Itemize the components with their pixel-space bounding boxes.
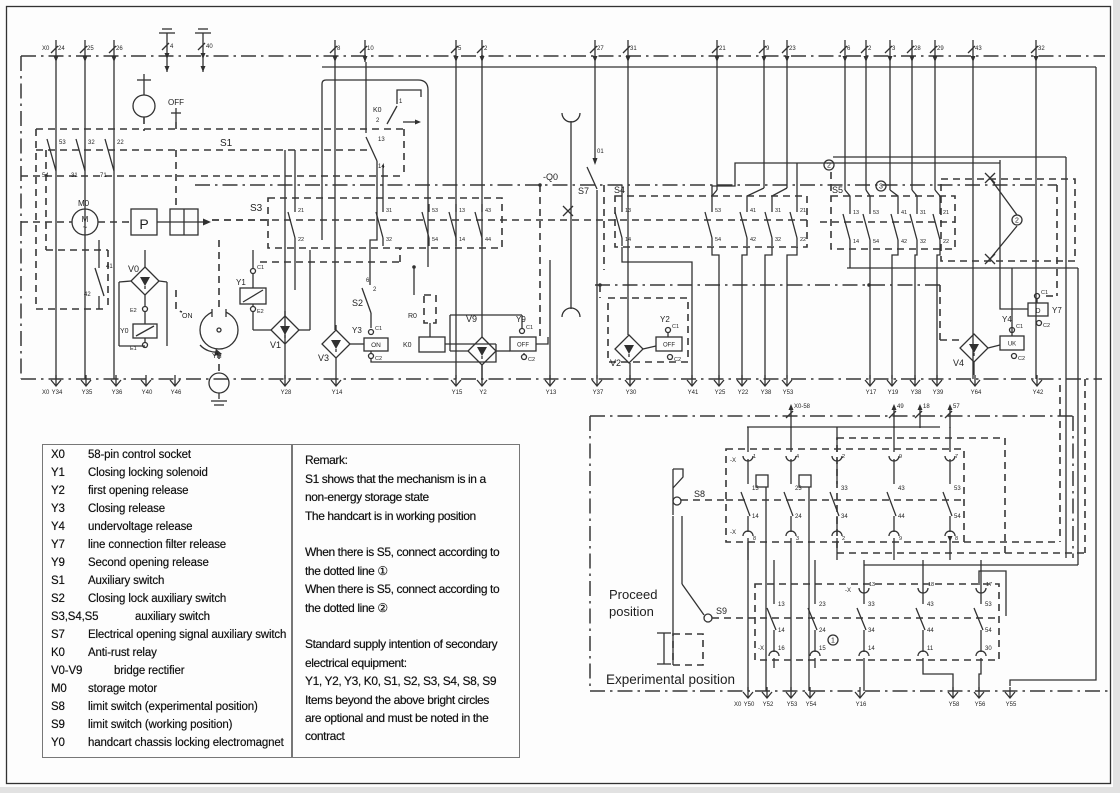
svg-text:E2: E2 [130,308,137,314]
svg-text:3: 3 [796,536,799,542]
svg-text:Y13: Y13 [546,390,557,396]
svg-text:OFF: OFF [168,98,184,107]
svg-text:16: 16 [778,646,785,652]
svg-text:Y39: Y39 [933,390,944,396]
svg-text:53: 53 [59,140,66,146]
svg-text:41: 41 [106,264,113,270]
svg-text:29: 29 [937,46,944,52]
svg-text:14: 14 [625,237,631,243]
svg-text:Y14: Y14 [332,390,343,396]
svg-text:13: 13 [459,208,465,214]
svg-text:54: 54 [715,237,721,243]
svg-text:Experimental position: Experimental position [606,672,735,687]
svg-text:34: 34 [841,514,848,520]
svg-text:7: 7 [955,454,958,460]
svg-text:ON: ON [371,342,381,349]
svg-text:Y15: Y15 [452,390,463,396]
svg-text:13: 13 [378,137,385,143]
svg-text:-X: -X [730,530,736,536]
svg-text:14: 14 [378,164,385,170]
svg-text:D: D [1035,308,1040,315]
svg-text:ON: ON [182,313,193,320]
svg-text:43: 43 [975,46,982,52]
svg-text:C1: C1 [526,325,533,331]
svg-text:-X: -X [730,458,736,464]
svg-text:21: 21 [298,208,304,214]
svg-text:32: 32 [88,140,95,146]
svg-text:-X: -X [845,588,851,594]
svg-text:23: 23 [819,602,826,608]
svg-text:54: 54 [954,514,961,520]
svg-text:43: 43 [898,486,905,492]
svg-text:1: 1 [831,638,835,645]
svg-text:53: 53 [954,486,961,492]
svg-text:31: 31 [775,208,781,214]
svg-text:S2: S2 [352,298,363,308]
svg-text:YH: YH [212,353,222,360]
svg-text:13: 13 [778,602,785,608]
svg-text:24: 24 [58,46,65,52]
svg-text:33: 33 [841,486,848,492]
svg-text:43: 43 [927,602,934,608]
svg-text:Y41: Y41 [688,390,699,396]
svg-text:S4: S4 [614,185,625,195]
svg-text:Y16: Y16 [856,702,867,708]
svg-text:23: 23 [789,46,796,52]
svg-text:21: 21 [719,46,726,52]
svg-text:Y28: Y28 [281,390,292,396]
svg-text:V3: V3 [318,353,329,363]
svg-text:Y55: Y55 [1006,702,1017,708]
svg-text:S3: S3 [250,203,263,214]
svg-text:31: 31 [386,208,392,214]
svg-text:S9: S9 [716,606,727,616]
svg-text:32: 32 [920,239,926,245]
svg-text:42: 42 [750,237,756,243]
svg-text:13: 13 [625,208,631,214]
svg-text:32: 32 [1038,46,1045,52]
svg-text:Y22: Y22 [738,390,749,396]
svg-text:Y42: Y42 [1033,390,1044,396]
svg-text:54: 54 [42,173,49,179]
svg-text:S1: S1 [220,138,233,149]
svg-text:22: 22 [117,140,124,146]
svg-text:S7: S7 [578,186,589,196]
svg-text:Y4: Y4 [1002,315,1012,324]
svg-text:54: 54 [432,237,438,243]
svg-text:44: 44 [927,628,934,634]
svg-text:Y58: Y58 [949,702,960,708]
svg-text:2: 2 [827,163,831,170]
svg-text:11: 11 [927,646,934,652]
svg-text:13: 13 [869,582,875,588]
svg-text:42: 42 [84,292,91,298]
svg-text:26: 26 [116,46,123,52]
svg-text:Y35: Y35 [82,390,93,396]
svg-text:44: 44 [485,237,491,243]
svg-text:K0: K0 [373,107,382,114]
svg-text:X0: X0 [42,46,50,52]
svg-text:01: 01 [597,149,604,155]
svg-text:C2: C2 [1043,323,1050,329]
svg-text:-Q0: -Q0 [543,172,558,182]
svg-text:R0: R0 [408,313,417,320]
svg-text:8: 8 [753,536,756,542]
svg-text:42: 42 [901,239,907,245]
svg-text:14: 14 [868,646,875,652]
svg-text:Y64: Y64 [971,390,982,396]
svg-text:X0: X0 [734,702,742,708]
svg-text:31: 31 [920,210,926,216]
svg-text:1: 1 [753,454,756,460]
svg-text:27: 27 [597,46,604,52]
svg-text:25: 25 [87,46,94,52]
svg-text:22: 22 [800,237,806,243]
svg-text:41: 41 [750,208,756,214]
svg-text:14: 14 [853,239,859,245]
svg-text:UK: UK [1008,342,1016,348]
svg-text:22: 22 [943,239,949,245]
svg-text:22: 22 [298,237,304,243]
svg-text:V4: V4 [953,358,964,368]
svg-text:Y38: Y38 [761,390,772,396]
svg-text:49: 49 [897,404,904,410]
svg-text:V2: V2 [610,358,621,368]
svg-text:OFF: OFF [517,343,529,349]
svg-text:C1: C1 [375,326,382,332]
svg-text:8: 8 [955,536,958,542]
svg-text:~: ~ [83,223,88,232]
svg-text:position: position [609,604,654,619]
svg-text:Y2: Y2 [479,390,487,396]
svg-text:Y37: Y37 [593,390,604,396]
svg-text:Proceed: Proceed [609,587,657,602]
svg-text:14: 14 [778,628,785,634]
svg-text:Y36: Y36 [112,390,123,396]
svg-text:32: 32 [386,237,392,243]
svg-text:53: 53 [715,208,721,214]
svg-text:Y17: Y17 [866,390,877,396]
svg-text:31: 31 [630,46,637,52]
svg-text:32: 32 [775,237,781,243]
svg-text:Y7: Y7 [1052,306,1062,315]
svg-text:C2: C2 [528,357,535,363]
svg-text:71: 71 [100,173,107,179]
svg-text:X0: X0 [42,390,50,396]
svg-text:S8: S8 [694,489,705,499]
svg-text:10: 10 [367,46,374,52]
svg-text:2: 2 [1015,218,1019,225]
svg-text:Y46: Y46 [171,390,182,396]
svg-text:14: 14 [752,514,759,520]
svg-text:-X: -X [758,646,764,652]
svg-text:53: 53 [873,210,879,216]
svg-text:31: 31 [71,173,78,179]
svg-text:V0: V0 [128,264,139,274]
svg-text:OFF: OFF [663,343,675,349]
svg-text:21: 21 [800,208,806,214]
svg-text:9: 9 [899,536,902,542]
svg-text:44: 44 [898,514,905,520]
svg-text:33: 33 [868,602,875,608]
svg-text:34: 34 [868,628,875,634]
svg-text:40: 40 [206,44,213,50]
svg-text:Y53: Y53 [787,702,798,708]
svg-text:2: 2 [842,536,845,542]
svg-text:14: 14 [459,237,465,243]
svg-text:9: 9 [899,454,902,460]
svg-text:E2: E2 [257,309,264,315]
svg-text:C1: C1 [672,324,679,330]
svg-text:Y9: Y9 [516,315,526,324]
svg-text:2: 2 [842,454,845,460]
svg-text:4: 4 [796,454,799,460]
svg-text:28: 28 [914,46,921,52]
svg-text:P: P [139,216,148,232]
svg-text:Y0: Y0 [120,328,129,335]
svg-text:C1: C1 [1041,290,1048,296]
svg-text:17: 17 [986,582,992,588]
svg-text:C1: C1 [257,265,264,271]
svg-text:Y1: Y1 [236,278,246,287]
svg-text:Y25: Y25 [715,390,726,396]
svg-text:Y2: Y2 [660,315,670,324]
svg-text:24: 24 [819,628,826,634]
svg-text:57: 57 [953,404,960,410]
svg-text:21: 21 [943,210,949,216]
svg-text:C1: C1 [1016,324,1023,330]
svg-text:15: 15 [819,646,826,652]
svg-text:Y56: Y56 [975,702,986,708]
svg-text:53: 53 [432,208,438,214]
svg-text:43: 43 [485,208,491,214]
svg-text:24: 24 [795,514,802,520]
svg-text:54: 54 [985,628,992,634]
svg-text:3: 3 [879,184,883,191]
svg-text:V1: V1 [270,340,281,350]
svg-text:Y53: Y53 [783,390,794,396]
svg-text:M0: M0 [78,199,90,208]
svg-text:Y52: Y52 [763,702,774,708]
svg-text:Y50: Y50 [744,702,755,708]
svg-text:41: 41 [901,210,907,216]
svg-text:K0: K0 [403,342,412,349]
svg-text:C2: C2 [1018,356,1025,362]
svg-text:X0-58: X0-58 [794,404,811,410]
svg-text:Y3: Y3 [352,326,362,335]
svg-text:Y19: Y19 [888,390,899,396]
svg-text:E1: E1 [130,346,137,352]
svg-text:18: 18 [923,404,930,410]
svg-text:Y40: Y40 [142,390,153,396]
svg-text:Y30: Y30 [626,390,637,396]
svg-text:18: 18 [928,582,934,588]
svg-text:Y34: Y34 [52,390,63,396]
svg-text:30: 30 [985,646,992,652]
svg-text:54: 54 [873,239,879,245]
svg-text:13: 13 [853,210,859,216]
svg-text:C2: C2 [674,357,681,363]
svg-text:S5: S5 [832,185,843,195]
svg-text:53: 53 [985,602,992,608]
svg-text:Y38: Y38 [911,390,922,396]
svg-text:C2: C2 [375,356,382,362]
svg-text:Y54: Y54 [806,702,817,708]
